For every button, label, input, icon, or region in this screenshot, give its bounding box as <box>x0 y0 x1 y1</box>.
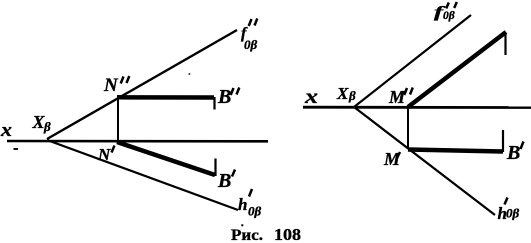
left label B' <box>217 170 235 193</box>
svg-text:N: N <box>97 145 111 164</box>
left label X beta <box>32 112 52 134</box>
svg-text:B: B <box>506 142 520 164</box>
left tick at B'' <box>213 97 215 110</box>
right label B' <box>506 142 524 165</box>
speckle dash below left x label <box>14 148 19 150</box>
right connector line M'' to M' <box>407 107 409 148</box>
caption Рис. 108 <box>231 225 301 243</box>
left thick segment N'' to B'' <box>117 95 214 100</box>
right label h'0beta <box>498 198 520 224</box>
right label M'' <box>388 87 413 107</box>
svg-text:M: M <box>383 149 401 169</box>
svg-text:108: 108 <box>274 225 301 243</box>
left label f''0beta <box>241 19 258 53</box>
right label X beta <box>336 84 356 103</box>
speckle dot above caption <box>241 224 243 226</box>
left tick at B' <box>214 159 216 177</box>
svg-text:X: X <box>336 84 349 103</box>
svg-text:M: M <box>388 87 406 107</box>
left label N' <box>97 145 115 164</box>
left thick segment N' to B' <box>117 142 215 175</box>
svg-text:β: β <box>348 88 356 103</box>
right x-axis <box>303 106 531 109</box>
right trace line f''0beta <box>354 15 471 107</box>
svg-text:0β: 0β <box>443 10 455 22</box>
svg-text:B: B <box>217 170 231 192</box>
left trace line h'0beta <box>47 140 238 210</box>
svg-text:N: N <box>103 75 119 96</box>
svg-text:0β: 0β <box>244 37 258 52</box>
svg-text:Рис.: Рис. <box>231 227 263 243</box>
left label h'0beta <box>238 189 262 219</box>
left trace line f''0beta <box>47 30 237 139</box>
left label B'' <box>217 86 239 108</box>
right label f''0beta <box>434 2 457 22</box>
left connector line N'' to N' <box>117 97 119 141</box>
right tick at B' <box>502 130 504 152</box>
svg-text:β: β <box>43 119 51 134</box>
right thick segment M' to B' <box>408 150 503 152</box>
svg-text:B: B <box>217 86 231 108</box>
svg-text:0β: 0β <box>248 204 262 219</box>
right label M' <box>383 149 401 169</box>
svg-text:x: x <box>304 84 318 108</box>
right trace line h'0beta <box>354 107 495 215</box>
svg-text:h: h <box>238 195 247 214</box>
svg-text:0β: 0β <box>506 206 520 221</box>
right thick segment from M'' up-right <box>408 32 506 107</box>
left x-axis <box>7 140 268 143</box>
left label N'' <box>103 75 129 96</box>
speckle dot below f line left <box>188 73 190 75</box>
svg-text:x: x <box>0 120 13 141</box>
right tick at end of M'' segment <box>504 33 506 55</box>
